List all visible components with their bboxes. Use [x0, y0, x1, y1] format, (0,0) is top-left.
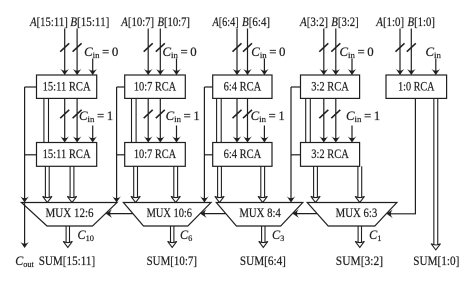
- bus slash marks on A/B wires column 1 (row 1): [60, 43, 81, 51]
- wire A[10:7] into 10:7 RCA (row 1): [144, 29, 153, 76]
- wire B[6:4] into 6:4 RCA (row 2): [243, 98, 252, 142]
- wire sum bus from 15:11 RCA (Cin=0), segment between boxes: [44, 98, 49, 142]
- svg-text:A[15:11]: A[15:11]: [29, 14, 68, 29]
- bus slash marks on A/B wires column 4 (row 1): [319, 43, 340, 51]
- RCA block 3:2 RCA (Cin=0): [301, 75, 360, 98]
- svg-text:MUX 6:3: MUX 6:3: [336, 205, 378, 220]
- bus SUM[10:7] output of MUX 10:6: [168, 226, 177, 248]
- svg-text:A[3:2]: A[3:2]: [299, 14, 328, 29]
- wire Cin into 10:7 RCA (row 1): [172, 59, 181, 76]
- bus slash marks on A/B wires column 1 (row 2): [60, 110, 81, 118]
- wire Cout from MUX 12:6: [20, 203, 29, 248]
- wire carry C3 from MUX 6:3 into MUX 8:4 select: [293, 209, 317, 218]
- bus sum0 of column 4 into MUX (lower segment): [311, 166, 320, 202]
- wire sum bus from 3:2 RCA (Cin=0), segment between boxes: [306, 98, 311, 142]
- svg-text:3:2 RCA: 3:2 RCA: [311, 147, 349, 161]
- wire Cin into 1:0 RCA (row 1): [432, 59, 441, 76]
- bus slash marks on A/B wires column 2 (row 2): [144, 110, 165, 118]
- RCA block 6:4 RCA (Cin=0): [213, 75, 272, 98]
- svg-text:A[10:7]: A[10:7]: [120, 14, 154, 29]
- bus slash marks on A/B wires column 5 (row 1): [396, 43, 416, 51]
- svg-text:Cin = 1: Cin = 1: [346, 109, 380, 124]
- wire A[3:2] into 3:2 RCA (row 2): [320, 98, 329, 142]
- RCA block 10:7 RCA (Cin=1): [125, 143, 186, 167]
- bus SUM[6:4] output of MUX 8:4: [259, 226, 268, 248]
- wire A[1:0] into 1:0 RCA (row 1): [396, 29, 405, 76]
- wire sum bus from 10:7 RCA (Cin=0), segment between boxes: [132, 98, 137, 142]
- svg-text:Cin = 1: Cin = 1: [166, 109, 200, 124]
- svg-text:SUM[10:7]: SUM[10:7]: [147, 253, 197, 268]
- bus sum1 of column 1 into MUX: [67, 166, 76, 202]
- wire Cin into 3:2 RCA (row 1): [348, 59, 357, 76]
- svg-text:6:4 RCA: 6:4 RCA: [224, 147, 262, 161]
- wire B[15:11] into 15:11 RCA (row 1): [73, 29, 82, 76]
- svg-text:B[15:11]: B[15:11]: [70, 14, 109, 29]
- svg-text:3:2 RCA: 3:2 RCA: [311, 80, 349, 94]
- svg-text:15:11 RCA: 15:11 RCA: [43, 147, 91, 161]
- RCA block 15:11 RCA (Cin=1): [37, 143, 97, 167]
- svg-text:B[3:2]: B[3:2]: [331, 14, 359, 29]
- wire B[15:11] into 15:11 RCA (row 2): [73, 98, 82, 142]
- svg-text:SUM[1:0]: SUM[1:0]: [413, 253, 459, 268]
- svg-text:Cin = 1: Cin = 1: [251, 109, 285, 124]
- bus SUM[3:2] output of MUX 6:3: [355, 226, 364, 248]
- wire carry-out of column 3 RCAs (stubs from both boxes) down to MUX: [200, 87, 213, 203]
- RCA block 1:0 RCA: [386, 75, 447, 98]
- wire A[6:4] into 6:4 RCA (row 1): [233, 29, 242, 76]
- bus SUM[15:11] output of MUX 12:6: [63, 226, 72, 248]
- bus sum1 of column 3 into MUX: [258, 166, 267, 202]
- bus SUM[1:0] from 1:0 RCA: [431, 98, 440, 250]
- RCA block 10:7 RCA (Cin=0): [125, 75, 186, 98]
- RCA block 3:2 RCA (Cin=1): [301, 143, 360, 167]
- svg-text:1:0 RCA: 1:0 RCA: [398, 79, 435, 93]
- svg-text:B[10:7]: B[10:7]: [158, 15, 191, 29]
- bus slash marks on A/B wires column 2 (row 1): [144, 43, 165, 51]
- wire carry-out of column 4 RCAs (stubs from both boxes) down to MUX: [287, 87, 301, 203]
- wire carry C6 from MUX 8:4 into MUX 10:6 select: [200, 209, 226, 218]
- bus slash marks on A/B wires column 4 (row 2): [319, 110, 340, 118]
- svg-text:A[6:4]: A[6:4]: [212, 15, 239, 29]
- bus sum1 of column 2 into MUX: [171, 166, 180, 202]
- wire Cin=1 into 3:2 RCA (row 2): [348, 126, 357, 143]
- wire A[15:11] into 15:11 RCA (row 2): [60, 98, 69, 142]
- wire A[6:4] into 6:4 RCA (row 2): [233, 98, 242, 142]
- svg-text:SUM[3:2]: SUM[3:2]: [336, 253, 383, 268]
- wire B[6:4] into 6:4 RCA (row 1): [243, 29, 252, 76]
- bus sum0 of column 2 into MUX (lower segment): [131, 166, 140, 202]
- wire B[10:7] into 10:7 RCA (row 2): [156, 98, 165, 142]
- mux MUX 12:6: [21, 203, 117, 227]
- RCA block 6:4 RCA (Cin=1): [213, 143, 272, 167]
- wire Cin into 15:11 RCA (row 1): [88, 59, 97, 76]
- wire carry-out of 1:0 RCA routed to MUX 6:3 select: [387, 98, 416, 218]
- bus sum1 of column 4 into MUX: [355, 166, 364, 202]
- wire A[15:11] into 15:11 RCA (row 1): [60, 29, 69, 76]
- bus slash marks on A/B wires column 3 (row 1): [233, 43, 253, 51]
- mux MUX 8:4: [216, 203, 302, 227]
- bus slash marks on A/B wires column 3 (row 2): [233, 110, 253, 118]
- svg-text:Cin = 0: Cin = 0: [84, 45, 118, 60]
- svg-text:10:7 RCA: 10:7 RCA: [134, 147, 177, 161]
- svg-text:SUM[15:11]: SUM[15:11]: [39, 253, 95, 268]
- svg-text:MUX 10:6: MUX 10:6: [147, 206, 193, 220]
- wire A[10:7] into 10:7 RCA (row 2): [144, 98, 153, 142]
- bus sum0 of column 3 into MUX (lower segment): [215, 166, 224, 202]
- svg-text:Cin = 0: Cin = 0: [340, 45, 374, 60]
- wire Cin=1 into 15:11 RCA (row 2): [88, 126, 97, 143]
- svg-text:SUM[6:4]: SUM[6:4]: [240, 253, 286, 268]
- svg-text:A[1:0]: A[1:0]: [375, 14, 404, 29]
- wire carry C10 from MUX 10:6 into MUX 12:6 select: [106, 209, 133, 218]
- svg-text:15:11 RCA: 15:11 RCA: [43, 80, 91, 94]
- svg-text:B[1:0]: B[1:0]: [408, 14, 436, 29]
- bus sum0 of column 1 into MUX (lower segment): [43, 166, 52, 202]
- wire A[3:2] into 3:2 RCA (row 1): [320, 29, 329, 76]
- svg-text:MUX 8:4: MUX 8:4: [239, 205, 280, 220]
- svg-text:B[6:4]: B[6:4]: [242, 14, 270, 29]
- svg-text:MUX 12:6: MUX 12:6: [45, 205, 93, 220]
- wire sum bus from 6:4 RCA (Cin=0), segment between boxes: [217, 98, 222, 142]
- wire B[3:2] into 3:2 RCA (row 1): [332, 29, 341, 76]
- wire B[3:2] into 3:2 RCA (row 2): [332, 98, 341, 142]
- mux MUX 6:3: [307, 203, 397, 227]
- wire B[10:7] into 10:7 RCA (row 1): [156, 29, 165, 76]
- svg-text:Cin = 1: Cin = 1: [79, 109, 113, 124]
- wire carry-out of column 1 RCAs (stubs from both boxes) down to MUX: [20, 87, 36, 203]
- svg-text:10:7 RCA: 10:7 RCA: [134, 80, 177, 94]
- mux MUX 10:6: [123, 203, 211, 227]
- wire Cin=1 into 6:4 RCA (row 2): [260, 126, 269, 143]
- RCA block 15:11 RCA (Cin=0): [37, 75, 97, 98]
- svg-text:Cin = 0: Cin = 0: [251, 45, 285, 60]
- svg-text:6:4 RCA: 6:4 RCA: [224, 80, 262, 94]
- wire Cin=1 into 10:7 RCA (row 2): [172, 126, 181, 143]
- wire carry-out of column 2 RCAs (stubs from both boxes) down to MUX: [112, 87, 124, 203]
- wire Cin into 6:4 RCA (row 1): [260, 59, 269, 76]
- svg-text:Cin = 0: Cin = 0: [163, 45, 197, 60]
- wire B[1:0] into 1:0 RCA (row 1): [407, 29, 416, 76]
